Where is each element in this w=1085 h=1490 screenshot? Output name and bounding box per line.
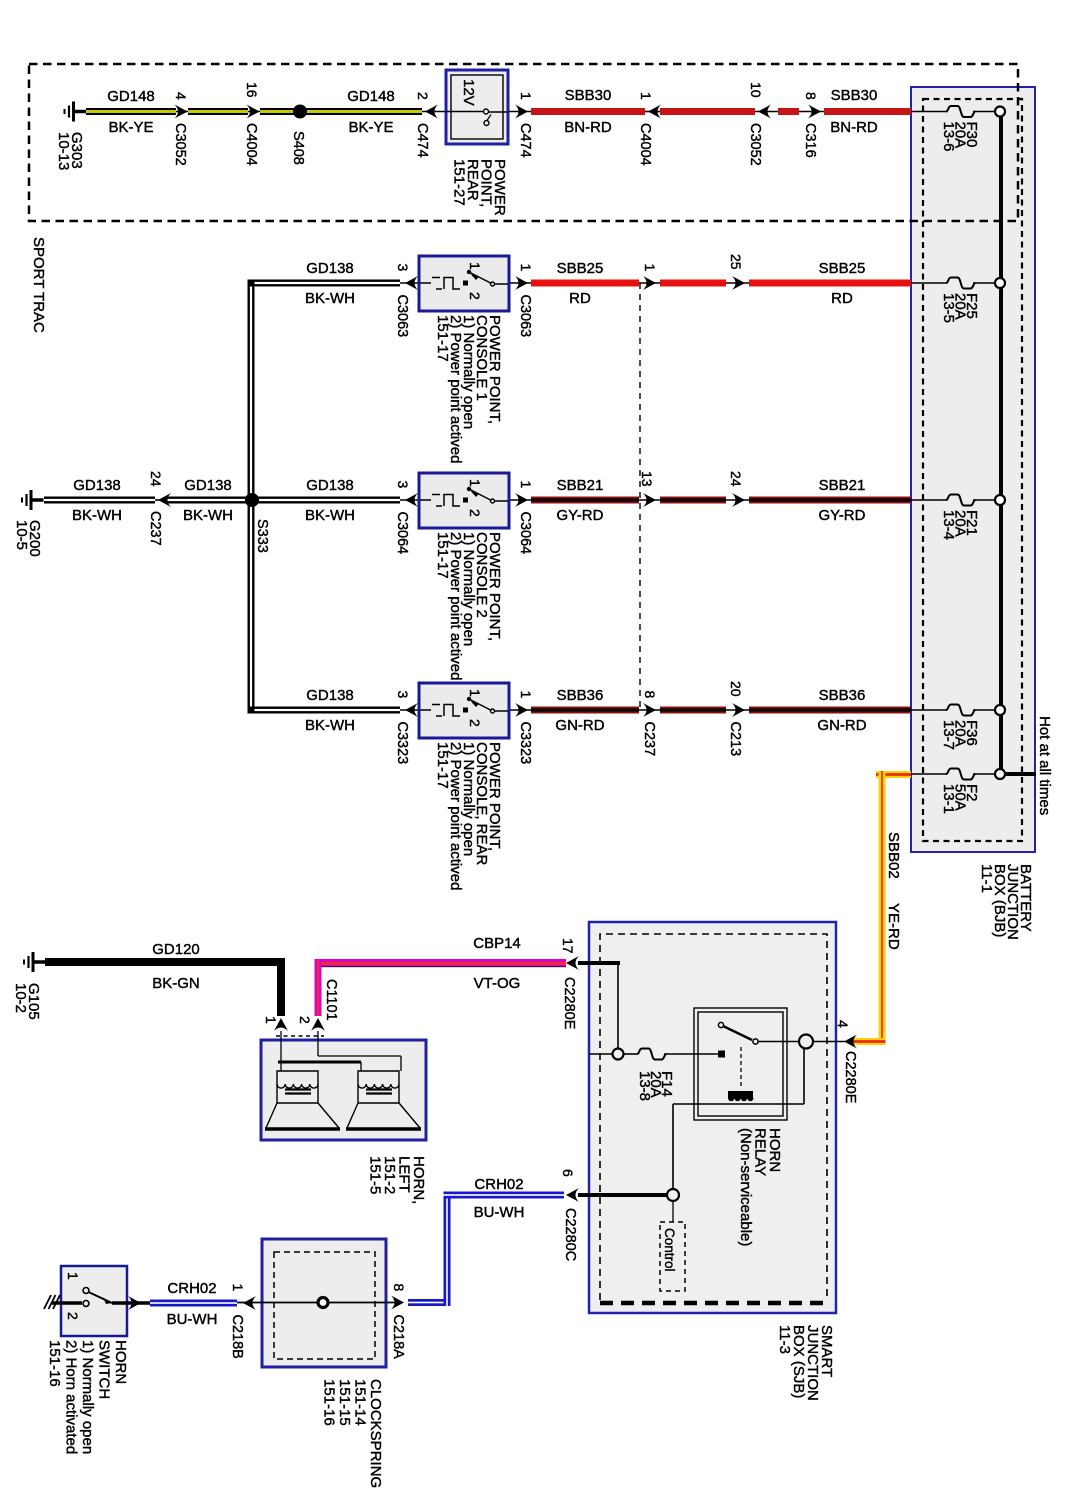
svg-text:C218A: C218A (390, 1315, 406, 1360)
svg-text:20: 20 (728, 681, 744, 697)
svg-text:25: 25 (728, 254, 744, 270)
svg-text:17: 17 (560, 938, 576, 954)
svg-text:6: 6 (560, 1169, 576, 1177)
svg-text:3: 3 (395, 264, 411, 272)
svg-text:F1420A13-8: F1420A13-8 (636, 1071, 675, 1101)
svg-text:SBB25: SBB25 (557, 260, 604, 277)
svg-text:8: 8 (391, 1284, 407, 1292)
svg-text:BK-GN: BK-GN (152, 975, 200, 992)
svg-text:RD: RD (831, 290, 853, 307)
svg-text:1: 1 (65, 1272, 81, 1280)
svg-text:BN-RD: BN-RD (564, 119, 612, 136)
svg-text:G30310-13: G30310-13 (55, 132, 85, 170)
svg-text:SPORT TRAC: SPORT TRAC (30, 237, 47, 333)
svg-text:BK-YE: BK-YE (108, 119, 153, 136)
svg-text:SBB30: SBB30 (565, 87, 612, 104)
svg-text:C3063: C3063 (394, 295, 410, 338)
svg-text:C4004: C4004 (243, 123, 259, 166)
svg-text:C3063: C3063 (517, 295, 533, 338)
svg-text:F2520A13-5: F2520A13-5 (940, 293, 980, 323)
svg-text:C316: C316 (802, 123, 818, 158)
svg-text:1: 1 (642, 264, 658, 272)
svg-text:C3323: C3323 (394, 722, 410, 765)
svg-text:24: 24 (148, 471, 164, 487)
svg-text:1: 1 (518, 691, 534, 699)
svg-text:GD120: GD120 (152, 941, 200, 958)
svg-text:GD138: GD138 (306, 260, 354, 277)
svg-text:2: 2 (297, 1016, 313, 1024)
svg-text:SBB21: SBB21 (557, 477, 604, 494)
svg-text:1: 1 (518, 92, 534, 100)
svg-text:2: 2 (65, 1312, 81, 1320)
svg-text:16: 16 (244, 82, 260, 98)
svg-text:SBB36: SBB36 (557, 687, 604, 704)
svg-text:GD138: GD138 (306, 687, 354, 704)
svg-text:4: 4 (173, 92, 189, 100)
svg-text:BU-WH: BU-WH (167, 1311, 218, 1328)
svg-text:S408: S408 (290, 131, 306, 165)
svg-text:3: 3 (395, 481, 411, 489)
svg-text:GD138: GD138 (184, 477, 232, 494)
svg-text:GY-RD: GY-RD (557, 507, 604, 524)
svg-text:4: 4 (835, 1020, 851, 1028)
svg-text:Control: Control (662, 1228, 677, 1272)
svg-text:BK-YE: BK-YE (348, 119, 393, 136)
svg-text:1: 1 (518, 481, 534, 489)
svg-text:BK-WH: BK-WH (305, 290, 355, 307)
svg-text:1: 1 (518, 264, 534, 272)
svg-text:1: 1 (638, 92, 654, 100)
svg-text:C213: C213 (727, 722, 743, 757)
svg-text:C2280E: C2280E (842, 1051, 858, 1104)
svg-text:2: 2 (415, 92, 431, 100)
svg-text:C474: C474 (517, 123, 533, 158)
svg-text:YE-RD: YE-RD (885, 903, 902, 950)
svg-text:GY-RD: GY-RD (819, 507, 866, 524)
svg-text:C3052: C3052 (172, 123, 188, 166)
svg-text:VT-OG: VT-OG (474, 975, 521, 992)
svg-text:1: 1 (230, 1284, 246, 1292)
svg-text:BU-WH: BU-WH (474, 1204, 525, 1221)
svg-text:8: 8 (642, 691, 658, 699)
svg-text:CRH02: CRH02 (474, 1176, 523, 1193)
svg-text:GD148: GD148 (107, 88, 155, 105)
svg-text:S333: S333 (254, 519, 270, 553)
svg-text:GD148: GD148 (347, 88, 395, 105)
svg-text:F2120A13-4: F2120A13-4 (940, 510, 980, 540)
svg-text:1: 1 (263, 1016, 279, 1024)
svg-text:CRH02: CRH02 (167, 1280, 216, 1297)
svg-text:10: 10 (748, 82, 764, 98)
svg-text:3: 3 (395, 691, 411, 699)
svg-text:BK-WH: BK-WH (72, 507, 122, 524)
svg-text:BK-WH: BK-WH (183, 507, 233, 524)
svg-text:SBB02: SBB02 (885, 832, 902, 879)
svg-text:C2280E: C2280E (561, 977, 577, 1030)
svg-text:12V: 12V (460, 79, 477, 106)
svg-text:SBB25: SBB25 (819, 260, 866, 277)
svg-text:Hot at all times: Hot at all times (1036, 716, 1053, 815)
svg-text:C474: C474 (414, 123, 430, 158)
svg-text:SBB21: SBB21 (819, 477, 866, 494)
svg-text:13: 13 (639, 471, 655, 487)
svg-text:C237: C237 (641, 722, 657, 757)
svg-text:BK-WH: BK-WH (305, 507, 355, 524)
svg-text:GN-RD: GN-RD (555, 717, 604, 734)
svg-text:GN-RD: GN-RD (817, 717, 866, 734)
svg-text:C237: C237 (147, 511, 163, 546)
svg-text:F3620A13-7: F3620A13-7 (940, 720, 980, 750)
svg-text:SBB30: SBB30 (831, 87, 878, 104)
svg-text:C3052: C3052 (747, 123, 763, 166)
svg-text:C3064: C3064 (394, 512, 410, 555)
svg-text:F3020A13-6: F3020A13-6 (940, 122, 980, 152)
svg-text:CBP14: CBP14 (473, 935, 521, 952)
svg-text:24: 24 (728, 471, 744, 487)
svg-text:C218B: C218B (229, 1315, 245, 1359)
svg-text:C1101: C1101 (323, 979, 339, 1021)
svg-text:BN-RD: BN-RD (830, 119, 878, 136)
svg-text:C2280C: C2280C (562, 1208, 578, 1261)
svg-text:SBB36: SBB36 (819, 687, 866, 704)
svg-text:RD: RD (569, 290, 591, 307)
svg-text:BK-WH: BK-WH (305, 717, 355, 734)
svg-text:GD138: GD138 (306, 477, 354, 494)
svg-text:8: 8 (803, 92, 819, 100)
svg-text:C3323: C3323 (517, 722, 533, 765)
svg-text:GD138: GD138 (73, 477, 121, 494)
svg-text:C4004: C4004 (637, 123, 653, 166)
svg-text:C3064: C3064 (517, 512, 533, 555)
